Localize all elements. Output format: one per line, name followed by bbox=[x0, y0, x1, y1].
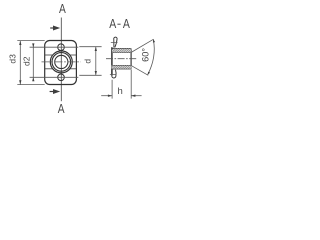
h dimension line left part bbox=[101, 95, 112, 97]
60deg extension line lower bbox=[131, 65, 148, 75]
svg-text:A: A bbox=[123, 16, 130, 31]
bottom hole centerline / d2 extension line bbox=[30, 76, 79, 78]
d dimension extension line bottom bbox=[79, 74, 101, 76]
flange plate outline (front view) bbox=[45, 41, 77, 85]
svg-text:A: A bbox=[109, 16, 116, 31]
h arrow left (pointing right) bbox=[108, 95, 112, 97]
top hole centerline / d2 extension line bbox=[30, 46, 79, 48]
svg-text:d: d bbox=[83, 59, 93, 64]
section axis centerline bbox=[106, 58, 136, 60]
h dimension line right part bbox=[131, 95, 141, 97]
hatching, bottom collar wall bbox=[112, 66, 132, 69]
d2 dimension line bbox=[32, 44, 34, 82]
svg-text:d2: d2 bbox=[21, 56, 31, 66]
horizontal centerline (front view) bbox=[42, 61, 81, 63]
lower leg hole centerline tick bbox=[110, 73, 116, 75]
bore circle bbox=[55, 55, 68, 68]
view direction arrow (top) bbox=[50, 27, 54, 29]
h extension line right bbox=[130, 70, 132, 99]
d3 dimension extension line top bbox=[17, 40, 44, 42]
svg-text:d3: d3 bbox=[7, 54, 17, 64]
flange bend line lower right bbox=[70, 68, 77, 70]
flange bend line upper left bbox=[45, 54, 53, 56]
h arrow right (pointing left) bbox=[131, 95, 135, 97]
d3 dimension extension line bottom bbox=[17, 84, 44, 86]
view direction arrow (bottom) bbox=[50, 91, 55, 93]
d arrow bottom bbox=[95, 71, 97, 75]
cutting plane line A-A (vertical centerline of left view) bbox=[60, 18, 62, 102]
collar bottom bore edge bbox=[112, 65, 131, 67]
60deg extension line upper bbox=[131, 39, 154, 52]
upper curled leg (section) bbox=[114, 37, 117, 47]
collar bottom outer edge bbox=[112, 68, 132, 70]
d dimension line bbox=[95, 47, 97, 76]
bottom mounting hole bbox=[58, 74, 65, 81]
d dimension extension line top bbox=[79, 46, 101, 48]
60deg dimension arc bbox=[148, 40, 155, 75]
h extension line left bbox=[111, 80, 113, 99]
collar outer circle bbox=[50, 51, 72, 73]
d arrow top bbox=[95, 47, 97, 51]
top mounting hole bbox=[58, 44, 65, 51]
60deg arc arrow upper bbox=[153, 39, 155, 42]
d3 dimension line bbox=[19, 41, 21, 85]
collar right end face bbox=[130, 49, 132, 69]
lower curled leg (section) bbox=[112, 70, 116, 78]
collar top outer edge bbox=[112, 48, 131, 50]
d2 arrow bottom (outside, pointing up) bbox=[32, 77, 34, 81]
d3 arrow bottom bbox=[19, 80, 21, 84]
collar rim circle bbox=[52, 53, 71, 72]
d3 arrow top bbox=[19, 41, 21, 45]
60deg arc arrow lower bbox=[148, 72, 150, 75]
flange plate edge-on (section) bbox=[111, 47, 113, 75]
collar top bore edge bbox=[112, 51, 131, 53]
svg-text:60°: 60° bbox=[140, 48, 150, 62]
upper leg hole centerline tick bbox=[111, 42, 118, 44]
d2 arrow top (outside, pointing down) bbox=[32, 43, 34, 47]
flange bend line upper right bbox=[70, 54, 77, 56]
svg-text:A: A bbox=[58, 102, 65, 116]
svg-text:h: h bbox=[118, 86, 123, 97]
flange bend line lower left bbox=[45, 68, 53, 70]
svg-text:A: A bbox=[59, 2, 66, 16]
hatching, top collar wall bbox=[112, 49, 131, 53]
